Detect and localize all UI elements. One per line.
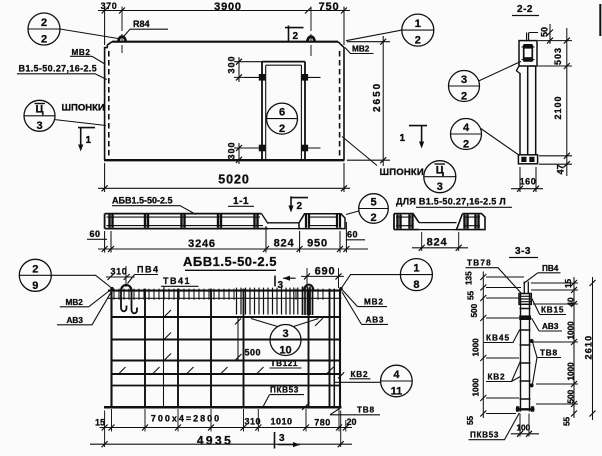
svg-text:40: 40 [567,297,576,307]
leader circle 1/2 to corner [346,30,402,41]
svg-text:МВ2: МВ2 [66,298,84,307]
label ТВ41 with leader [163,276,191,286]
svg-text:ШПОНКИ: ШПОНКИ [62,103,105,114]
svg-text:1000: 1000 [472,338,481,357]
svg-text:2650: 2650 [372,82,383,112]
svg-text:МВ2: МВ2 [72,48,91,57]
3-3 bar АВ3 (dark band) [519,315,531,320]
callout circle 6/2 in door [267,103,298,134]
3-3 top block КВ15 [519,294,531,305]
strip piece 1 outline [105,213,262,215]
top dimension line [98,10,350,12]
dim text 370 [101,1,118,11]
dense jamb bars (690 zone) [294,287,313,316]
svg-text:4: 4 [463,122,470,134]
svg-text:5: 5 [370,197,376,209]
svg-text:АБВ1.5-50-2.5: АБВ1.5-50-2.5 [112,196,173,206]
2-2 top pin [527,33,529,42]
dim 690 (cage top right) [301,275,344,277]
label МВ2 (cage right) [364,298,384,307]
label АБВ1.5-50-2.5 (small) with leader [112,196,173,206]
cage bottom dim line 2 (4935) [90,443,352,445]
svg-text:750: 750 [319,1,340,13]
dim 300 top at door [238,57,240,82]
loop right centerline [310,7,312,57]
cut mark 1 (left) [78,127,95,129]
callout circle 1/8 with leader [400,259,432,291]
2-2 top embed block МВ2 [519,41,537,66]
mirrored Л-variant strip fragment: left block [394,214,419,230]
lifting loop right [308,37,315,42]
label ТВ8 (3-3) with leaders [540,349,558,358]
2-2 bottom embed tie [518,155,537,164]
lifting loop left (ПВ4/R84) [119,37,126,42]
dim texts row 1 [95,414,357,428]
svg-text:ТВ8: ТВ8 [540,349,558,358]
svg-text:2: 2 [293,31,299,42]
2-2 jamb notch [516,66,520,74]
svg-text:2610: 2610 [584,335,594,360]
label R84 with leader [133,19,150,29]
svg-text:60: 60 [347,230,358,240]
svg-text:ТВ8: ТВ8 [357,406,375,415]
svg-text:АВ3: АВ3 [366,316,385,325]
title 2-2 [517,4,533,15]
door opening [262,62,305,160]
svg-text:МВ2: МВ2 [352,45,370,54]
svg-text:3: 3 [278,280,284,291]
svg-text:КВ2: КВ2 [351,370,369,379]
svg-text:824: 824 [274,238,295,250]
callout circle 4/2 [451,119,482,150]
svg-text:ТВ78: ТВ78 [467,259,492,268]
dim text 3900 [214,1,242,13]
2-2 dim 160 [511,188,543,190]
svg-text:700х4=2800: 700х4=2800 [151,414,221,424]
label ТВ121 [271,359,299,368]
3-3 right dim chain [573,277,575,418]
1-1 dim ticks [102,246,350,252]
title 3-3 [515,246,531,257]
cut mark 3 (top) [274,276,276,287]
svg-text:2: 2 [41,17,47,29]
cage lifting loop left (ПВ4) [121,285,132,291]
svg-text:3: 3 [437,181,443,193]
label ПКВ53 with leader [270,386,299,395]
cut mark 1 (right) [409,125,427,127]
callout circle 2/9 with leader [19,259,51,291]
svg-text:15: 15 [95,418,105,428]
svg-text:1: 1 [415,18,421,30]
1-1 dim texts [90,229,101,239]
cut mark 3 (bottom) [274,432,276,449]
label АВ3 (3-3) with leader [542,322,559,331]
label ТВ78 with leader [467,259,492,268]
svg-text:55: 55 [466,415,475,425]
label ПВ4 with leader [137,265,159,275]
svg-text:10: 10 [279,345,291,357]
node circle II/3 left [24,100,55,131]
svg-text:3: 3 [279,433,285,444]
svg-text:АВ3: АВ3 [67,316,84,325]
svg-text:ПКВ53: ПКВ53 [470,431,499,440]
svg-text:АБВ1.5-50-2.5: АБВ1.5-50-2.5 [183,254,277,269]
svg-text:500: 500 [245,348,262,358]
3-3 dim 100 [511,433,539,435]
leader circle 2/2 to loop [60,29,118,39]
callout circle 5/2 with leader [359,194,389,224]
svg-text:950: 950 [307,238,328,250]
2-2 column body [519,73,521,155]
leader to left keyed edge [54,120,106,126]
svg-text:1010: 1010 [270,417,292,427]
svg-text:3900: 3900 [214,1,242,13]
callout circle 1/2 [402,14,434,46]
svg-text:310: 310 [245,417,262,427]
svg-text:2: 2 [41,34,47,46]
label ПКВ53 (3-3) with leader [470,431,499,440]
door embeds bottom [244,147,321,149]
dim 300 bottom at door [238,143,240,164]
svg-text:60: 60 [90,229,101,239]
cage top chord ticks [114,289,323,300]
svg-text:МВ2: МВ2 [364,298,384,307]
svg-text:780: 780 [314,418,331,428]
svg-text:370: 370 [101,1,118,11]
cage top chord double [108,290,342,292]
mirrored Л-variant strip fragment: right block [457,214,486,230]
svg-text:1: 1 [86,135,92,146]
svg-text:20: 20 [346,417,356,427]
strip sill piece (door) [268,223,299,229]
svg-text:КВ2: КВ2 [488,373,506,382]
svg-text:50: 50 [540,27,550,37]
svg-text:В1.5-50.27,16-2.5: В1.5-50.27,16-2.5 [19,63,98,73]
svg-text:ТВ121: ТВ121 [271,359,299,368]
svg-text:3-3: 3-3 [515,246,531,257]
svg-text:8: 8 [413,279,419,291]
svg-text:55: 55 [467,290,476,300]
label МВ2 top-right with leader [352,45,370,54]
svg-text:47: 47 [556,164,566,174]
svg-text:Ц: Ц [436,165,444,177]
svg-text:11: 11 [391,386,403,398]
weld tick marks [118,310,334,410]
extensions [105,409,346,447]
callout circle 3/10 with leaders [270,325,301,356]
svg-text:503: 503 [553,47,563,65]
3-3 rungs [520,308,531,310]
svg-text:2100: 2100 [553,95,563,119]
svg-text:КВ15: КВ15 [541,306,564,315]
svg-text:Ц: Ц [35,104,43,116]
dim 310 (cage top left) [106,276,135,278]
label ШПОНКИ left [62,103,105,114]
svg-text:2: 2 [461,91,467,103]
svg-text:2: 2 [297,201,303,212]
svg-text:2: 2 [463,139,469,151]
label КВ2 (3-3) with leaders [488,373,506,382]
dim 500 (cage middle) [237,318,239,361]
svg-text:2: 2 [32,263,38,275]
svg-text:500: 500 [567,389,576,403]
svg-text:ШПОНКИ: ШПОНКИ [380,167,424,178]
label МВ2 top-left with leader [72,48,91,57]
3-3 top pin [524,282,528,295]
scan artifact top-right edge [599,4,601,36]
svg-text:1000: 1000 [567,362,576,381]
svg-text:3246: 3246 [188,238,216,250]
keyed edge (shponki) left dashed [108,51,110,158]
extension line left corner [104,7,106,46]
svg-text:310: 310 [111,267,128,277]
svg-text:1-1: 1-1 [233,196,249,207]
leader 4/2 to tie [481,129,520,156]
label КВ45 with leader [486,334,510,343]
svg-text:55: 55 [563,416,572,426]
svg-text:4935: 4935 [197,434,233,448]
3-3 left dim chain [482,272,484,419]
svg-text:ПВ4: ПВ4 [137,265,159,275]
1-1 extension lines [105,222,347,253]
svg-text:6: 6 [279,107,285,119]
node circle II/3 right [424,161,456,193]
Л-fragment dim 824 [412,247,468,249]
keyed edge (shponki) right dashed [339,51,341,158]
svg-text:1000: 1000 [472,378,481,397]
svg-text:2: 2 [415,35,421,47]
svg-text:2: 2 [370,212,376,224]
svg-text:КВ45: КВ45 [486,334,510,343]
label КВ15 with leader [541,306,564,315]
label В1.5-50.27.16-2.5 with leader [19,63,98,73]
svg-text:100: 100 [517,424,531,433]
label КВ2 with leader and callout 4/11 [351,370,369,379]
svg-text:500: 500 [470,303,479,317]
cut mark 2 (bottom) [290,196,292,209]
svg-text:824: 824 [427,237,448,249]
svg-text:5020: 5020 [218,173,249,187]
callout circle 3/2 [449,71,480,102]
title 1-1 [233,196,249,207]
dim 5020 [98,187,350,189]
svg-text:3: 3 [36,120,42,132]
svg-text:690: 690 [315,266,336,278]
3-3 bar dots ТВ8 [530,339,534,343]
svg-text:ПКВ53: ПКВ53 [270,386,299,395]
label ШПОНКИ right with leader [342,137,377,166]
dense bars over door (ТВ121) [237,288,291,315]
leader 3/2 to block [479,61,521,81]
callout circle 2/2 [28,13,60,45]
svg-text:1: 1 [400,133,406,144]
cut mark 2 (top) [288,26,290,42]
title АБВ1.5-50-2.5 [183,254,277,269]
label ТВ8 (cage bottom right) with leader [357,406,375,415]
strip transverse bar marks [110,215,258,228]
loop left centerline [121,7,123,54]
thin bar ТВ41 vertical [163,289,165,407]
2-2 dim 50 [549,24,551,44]
svg-text:300: 300 [227,55,237,73]
cage horizontal bars [112,316,341,318]
extension line right corner [343,7,345,46]
dim ticks top [102,8,347,14]
svg-text:160: 160 [520,177,537,187]
svg-text:1: 1 [413,263,419,275]
svg-text:2-2: 2-2 [517,4,533,15]
label АВ3 (cage left) [67,316,84,325]
svg-text:15: 15 [564,278,573,288]
dim text 750 [319,1,340,13]
panel outline [104,42,345,161]
svg-text:ТВ41: ТВ41 [163,276,191,286]
2-2 dim chain 503/2100/47 [566,28,568,176]
cage lifting loop right [304,285,314,291]
svg-text:R84: R84 [133,19,150,29]
svg-text:135: 135 [465,271,474,285]
svg-text:1000: 1000 [567,321,576,340]
mirrored Л-variant strip fragment: sill [419,223,457,230]
dim 2650 right [382,36,384,166]
svg-text:ПВ4: ПВ4 [542,264,559,273]
svg-text:9: 9 [32,280,38,292]
door embeds top [244,76,321,78]
strip piece 2 [299,214,345,229]
svg-text:300: 300 [227,141,237,159]
svg-text:4: 4 [393,369,400,381]
svg-text:3: 3 [461,74,467,86]
svg-text:3: 3 [282,328,288,340]
3-3 overall dim 2610 [592,277,594,420]
3-3 column verticals [521,294,530,412]
label ПВ4 (3-3) with leader [542,264,559,273]
ticks dim line 1 [102,425,349,431]
label МВ2 (cage left) [66,298,84,307]
cage bottom dim line 1 [100,427,352,429]
label ДЛЯ В1.5-50.27,16-2.5 Л [396,197,506,207]
cage bottom chord [104,406,342,409]
svg-text:ДЛЯ В1.5-50.27,16-2.5 Л: ДЛЯ В1.5-50.27,16-2.5 Л [396,197,506,207]
svg-text:2: 2 [279,123,285,135]
3-3 bottom tie ПКВ53 [516,408,535,410]
1-1 dim line [98,248,368,250]
label АВ3 (cage right) [366,316,385,325]
svg-text:АВ3: АВ3 [542,322,559,331]
cage vertical bars [110,289,112,408]
